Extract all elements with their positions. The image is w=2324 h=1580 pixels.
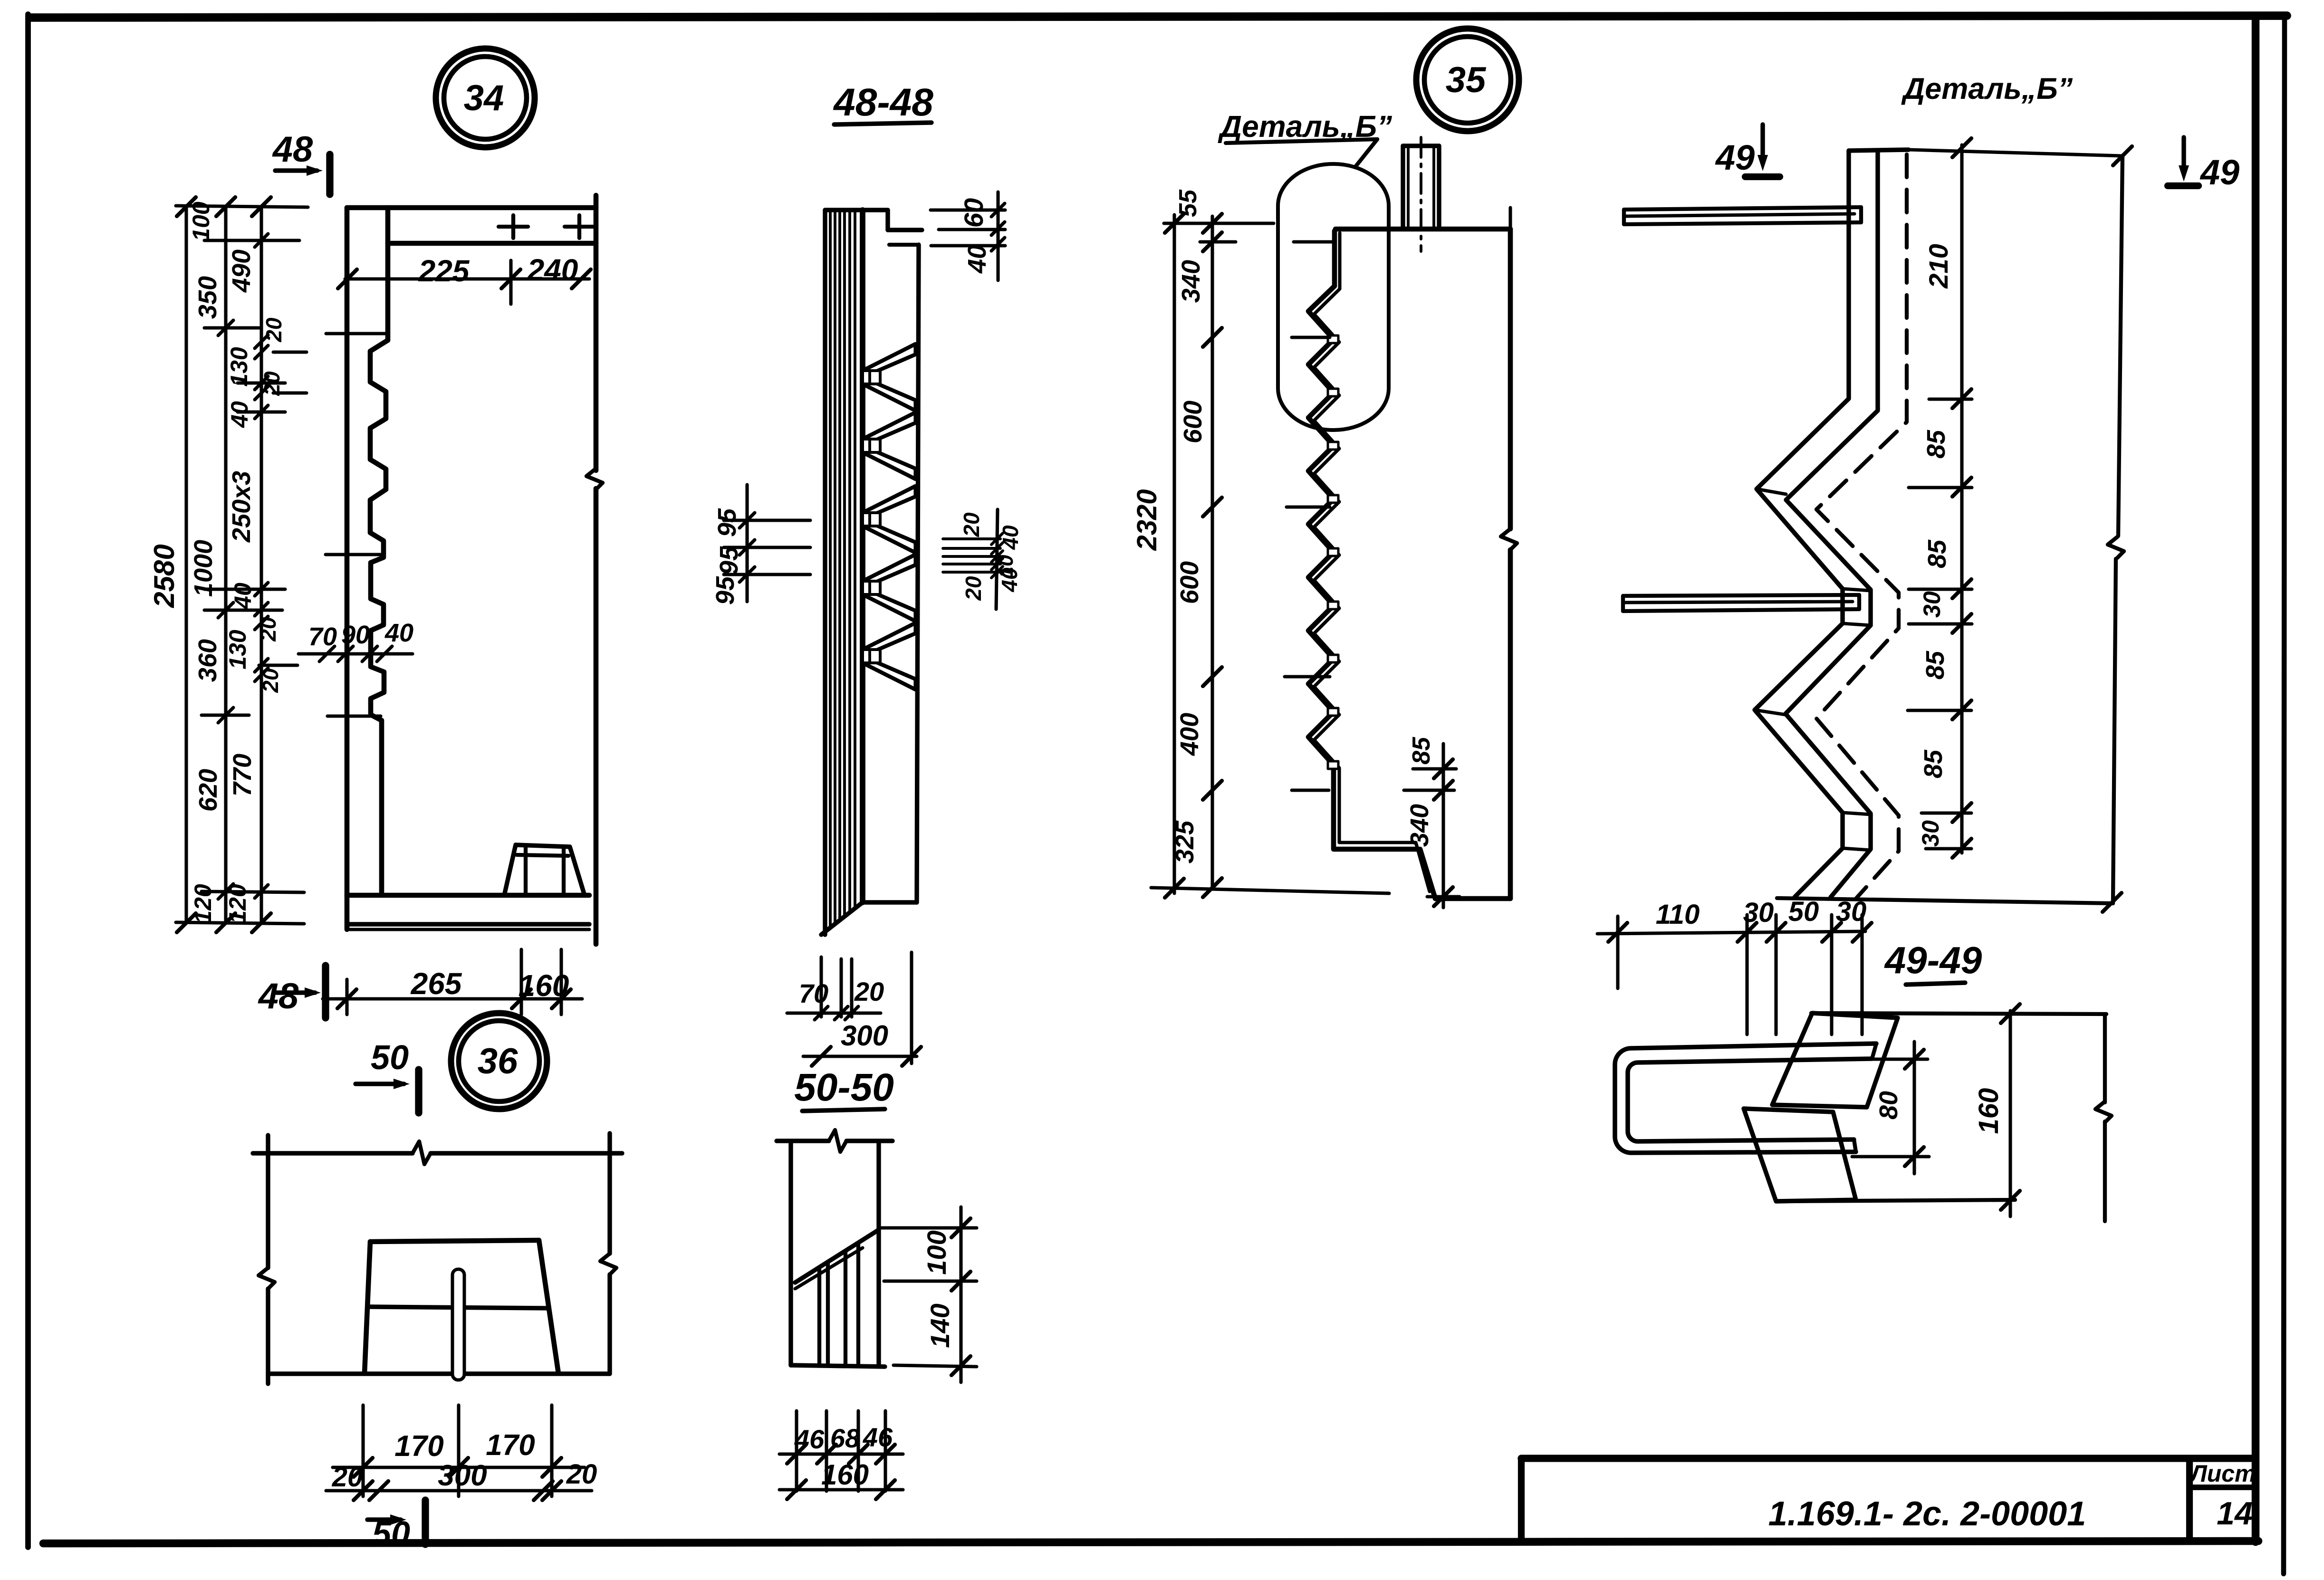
svg-text:40: 40 [998,525,1023,550]
50-50 right dims 100/140 [882,1226,977,1229]
element 35 outline [1335,227,1510,232]
80 dim [1872,1057,1928,1061]
svg-text:110: 110 [1656,899,1700,930]
dims 110/30/50/30 [1616,916,1619,988]
svg-text:48: 48 [272,129,313,170]
svg-text:120: 120 [224,884,251,924]
element 35 serrated edge outer [1308,231,1435,899]
el34 dim 265/160 [323,997,582,1000]
svg-text:90: 90 [341,621,370,649]
48-48 bottom dims 70/20 300 [819,957,823,1017]
el34 dim 70/90/40 [298,652,413,655]
top edge [1849,150,1909,151]
svg-text:1000: 1000 [189,540,218,597]
detail balloon (capsule) [1278,164,1389,430]
chevron band solid line 2 [1786,151,1878,897]
svg-text:225: 225 [418,254,470,288]
slot [452,1269,464,1380]
svg-text:130: 130 [224,630,251,670]
48-48 keys (grooves) [863,344,915,371]
svg-text:250х3: 250х3 [227,471,256,543]
U-bar inner [1628,1059,1872,1141]
svg-text:20: 20 [256,617,280,642]
160 dim [1811,1013,2106,1014]
svg-text:49: 49 [1715,138,1755,177]
48-48 top right dims 60/40 [931,208,1005,211]
svg-text:2580: 2580 [148,544,180,608]
svg-text:85: 85 [1921,651,1949,680]
svg-text:300: 300 [841,1020,888,1052]
centring crosses [499,225,528,229]
el35 left dims [1172,215,1176,893]
svg-text:49: 49 [2199,153,2239,192]
svg-text:50-50: 50-50 [794,1066,894,1109]
svg-text:20: 20 [961,576,986,601]
svg-text:Деталь„Б”: Деталь„Б” [1901,72,2073,105]
svg-text:160: 160 [821,1459,869,1491]
svg-text:30: 30 [1743,897,1774,928]
lower plate [1744,1109,1856,1201]
upper plate [1772,1013,1898,1107]
svg-text:30: 30 [1919,591,1945,618]
svg-text:210: 210 [1923,244,1953,288]
svg-text:40: 40 [230,583,256,610]
svg-text:620: 620 [194,769,222,812]
el34 left dimension lines [184,207,188,922]
svg-text:160: 160 [519,968,569,1003]
svg-text:20: 20 [959,512,984,537]
element 34 notched edge [370,340,388,895]
svg-text:265: 265 [411,967,462,1001]
svg-text:400: 400 [1175,713,1204,756]
svg-text:85: 85 [1923,539,1951,568]
svg-text:50: 50 [371,1039,409,1077]
svg-text:48-48: 48-48 [833,81,933,124]
element 34 lifting boss [516,845,570,847]
el35 step dims 85/340 [1413,767,1456,770]
svg-text:30: 30 [1836,896,1867,927]
svg-text:360: 360 [193,639,222,682]
section 50-50 view [777,1139,829,1143]
svg-text:600: 600 [1175,561,1204,604]
chevron band solid line 1 [1755,151,1849,897]
svg-text:40: 40 [963,245,991,274]
svg-text:35: 35 [1446,60,1487,100]
sheet frame [30,16,2287,18]
svg-text:600: 600 [1179,401,1207,443]
vertex notches [1328,335,1338,343]
svg-text:48: 48 [258,976,299,1016]
svg-text:95: 95 [711,576,739,605]
svg-text:14: 14 [2217,1495,2253,1532]
bottom line [1777,898,2113,903]
svg-text:60: 60 [959,198,989,228]
el34 dim 225/240 [345,277,589,280]
svg-text:70: 70 [308,622,337,651]
svg-text:20: 20 [332,1462,363,1493]
svg-text:20: 20 [258,668,283,693]
svg-text:170: 170 [394,1430,443,1463]
svg-text:Лист: Лист [2189,1460,2256,1487]
svg-text:70: 70 [799,978,828,1008]
U-bar outer [1615,1044,1876,1153]
svg-text:95: 95 [713,508,741,537]
svg-text:325: 325 [1171,820,1199,863]
circle mark 34 [436,48,535,147]
svg-text:85: 85 [1408,737,1435,765]
svg-text:240: 240 [527,253,578,287]
right dim stack [1960,145,1963,853]
svg-text:49-49: 49-49 [1884,939,1982,981]
48-48 plank [823,210,827,935]
svg-text:140: 140 [925,1303,955,1348]
svg-text:120: 120 [190,884,216,924]
anchor bar top [1624,207,1861,210]
svg-text:20: 20 [854,977,884,1006]
svg-text:40: 40 [384,619,413,647]
48-48 left dims 95x3 [724,518,810,522]
svg-text:40: 40 [226,401,253,428]
svg-text:170: 170 [486,1429,535,1462]
svg-text:80: 80 [1874,1091,1903,1120]
lifting tube [1401,146,1405,229]
svg-text:46: 46 [794,1424,825,1454]
svg-text:68: 68 [830,1423,860,1453]
el35 extension lines [1164,221,1274,225]
svg-text:85: 85 [1922,430,1950,459]
chevron band dashed hidden line [1816,154,1907,898]
svg-text:85: 85 [1919,749,1948,778]
element 34 bottom slab [347,893,589,898]
trapezoid boss plan [370,1240,539,1242]
circle mark 36 [451,1013,547,1109]
chevron seams [1757,489,1786,494]
svg-text:490: 490 [227,249,256,293]
svg-text:34: 34 [464,78,504,118]
svg-text:2320: 2320 [1132,489,1162,551]
svg-text:46: 46 [863,1422,893,1452]
svg-text:160: 160 [1973,1088,2004,1134]
circle mark 35 [1416,29,1519,131]
svg-text:130: 130 [226,347,252,387]
element 35 serrated edge inner [1314,233,1430,891]
detail 36 plan outline [253,1151,413,1155]
svg-text:20: 20 [259,371,284,396]
48-48 right dims 20/40/10/40/20 [943,537,1000,540]
element 34 outline [347,205,596,211]
anchor bar middle [1623,595,1859,596]
svg-text:20: 20 [261,317,286,343]
svg-text:50: 50 [1788,896,1819,927]
projection line right [2118,156,2122,536]
svg-text:350: 350 [193,276,222,319]
svg-text:36: 36 [478,1041,518,1082]
svg-text:770: 770 [228,754,257,796]
50-50 bottom dims 46/68/46 160 [795,1411,798,1491]
svg-text:340: 340 [1177,260,1205,303]
svg-text:30: 30 [1917,820,1944,847]
svg-text:100: 100 [922,1230,951,1274]
title block [1521,1455,2256,1462]
svg-text:20: 20 [566,1459,597,1490]
svg-text:55: 55 [1174,189,1202,217]
svg-text:300: 300 [438,1459,487,1492]
svg-text:40: 40 [997,567,1022,593]
svg-text:340: 340 [1405,804,1434,847]
svg-text:100: 100 [188,201,214,241]
det36 dims [361,1405,365,1496]
svg-text:1.169.1- 2с. 2-00001: 1.169.1- 2с. 2-00001 [1768,1495,2086,1533]
svg-text:95: 95 [715,546,743,575]
